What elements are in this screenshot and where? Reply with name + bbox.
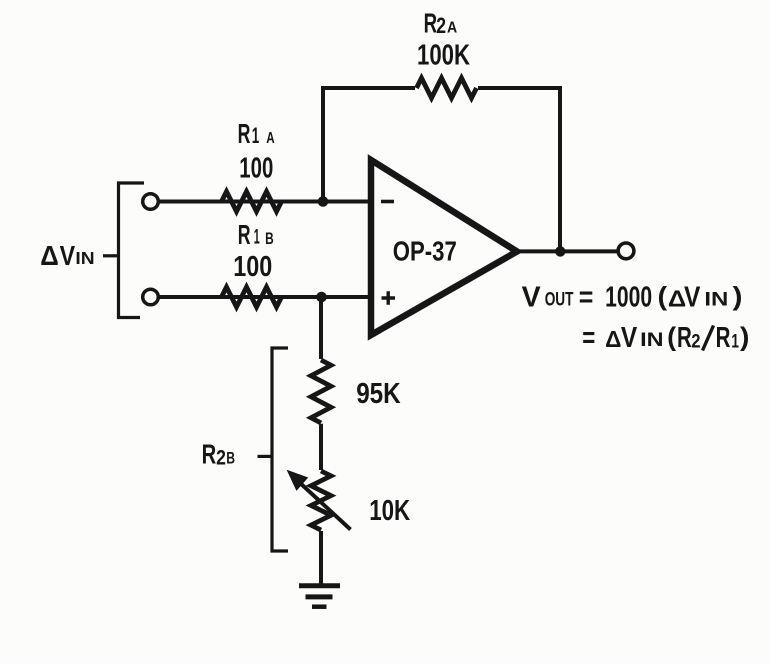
svg-text:B: B — [265, 229, 274, 248]
minus input pin mark — [381, 200, 394, 204]
junction node inverting input — [318, 196, 329, 207]
plus input pin mark — [382, 291, 396, 304]
svg-text:): ) — [733, 281, 743, 311]
input terminal B — [143, 289, 159, 305]
svg-text:A: A — [266, 130, 275, 147]
svg-text:R: R — [677, 322, 692, 354]
label OP-37 — [393, 236, 457, 267]
svg-text:1000: 1000 — [605, 282, 652, 314]
svg-text:A: A — [447, 19, 458, 36]
svg-text:V: V — [60, 240, 76, 271]
svg-text:V: V — [684, 282, 701, 314]
junction node non-inverting input — [316, 292, 327, 303]
bracket R2B — [272, 348, 288, 551]
ground — [299, 586, 340, 607]
label 100K — [417, 40, 470, 72]
label 100 (R1B value) — [233, 251, 272, 283]
svg-text:100: 100 — [233, 251, 272, 283]
junction node output — [555, 246, 565, 256]
resistor R1A — [222, 192, 282, 212]
svg-text:100: 100 — [239, 153, 273, 185]
svg-text:=: = — [582, 322, 595, 354]
potentiometer arrowhead — [289, 472, 307, 490]
wire 10K to ground — [319, 531, 323, 584]
svg-text:95K: 95K — [356, 378, 401, 410]
wire input A — [159, 200, 372, 204]
svg-text:R: R — [238, 219, 251, 250]
svg-text:R: R — [238, 118, 251, 149]
wire feedback left vertical — [321, 86, 325, 202]
wire input B — [159, 295, 372, 299]
label 100 (R1A value) — [239, 153, 273, 185]
svg-text:R: R — [424, 8, 438, 39]
wire feedback top-left horizontal — [321, 86, 415, 90]
resistor R2A — [417, 78, 477, 98]
wire to 95K — [319, 297, 323, 359]
label ΔVIN — [40, 240, 94, 271]
label R2A — [424, 8, 458, 39]
svg-text:): ) — [740, 321, 749, 351]
wire feedback top-right horizontal — [478, 86, 560, 90]
tick to R2B label — [258, 455, 273, 458]
input terminal A — [143, 194, 159, 210]
svg-text:Δ: Δ — [40, 240, 59, 271]
svg-text:10K: 10K — [369, 495, 410, 527]
svg-text:IN: IN — [75, 248, 94, 268]
label VOUT equation line 2 — [582, 321, 749, 354]
svg-text:1: 1 — [731, 332, 739, 353]
wire 95K to 10K — [319, 424, 323, 470]
svg-text:IN: IN — [640, 330, 663, 351]
label R1B — [238, 219, 274, 250]
svg-text:(: ( — [658, 281, 668, 311]
svg-text:V: V — [621, 322, 638, 354]
svg-text:Δ: Δ — [605, 326, 621, 352]
output terminal — [618, 243, 634, 259]
svg-text:B: B — [226, 449, 235, 468]
svg-text:=: = — [579, 282, 594, 314]
svg-text:2: 2 — [216, 446, 226, 469]
svg-text:V: V — [522, 282, 542, 314]
svg-text:2: 2 — [691, 332, 700, 353]
label 10K — [369, 495, 410, 527]
label R2B — [202, 439, 235, 470]
op-amp U1 OP-37 — [371, 160, 517, 335]
bracket input ΔVIN — [119, 183, 145, 318]
svg-text:1: 1 — [252, 123, 259, 148]
svg-text:IN: IN — [704, 290, 728, 311]
svg-text:R: R — [716, 322, 731, 354]
label VOUT equation line 1 — [522, 281, 743, 314]
svg-text:1: 1 — [254, 226, 260, 249]
svg-text:100K: 100K — [417, 40, 470, 72]
svg-text:2: 2 — [436, 13, 446, 38]
potentiometer 10K zigzag — [311, 471, 331, 530]
svg-text:OUT: OUT — [545, 290, 574, 311]
svg-text:R: R — [202, 439, 217, 470]
svg-text:(: ( — [667, 321, 676, 351]
potentiometer arrow shaft — [299, 482, 351, 530]
wire output — [515, 249, 618, 253]
svg-text:OP-37: OP-37 — [393, 236, 457, 267]
resistor 95K — [311, 360, 331, 423]
label 95K — [356, 378, 401, 410]
tick to ΔVIN label — [103, 254, 118, 257]
wire feedback right vertical — [558, 86, 562, 251]
resistor R1B — [222, 287, 282, 307]
label R1A — [238, 118, 275, 149]
